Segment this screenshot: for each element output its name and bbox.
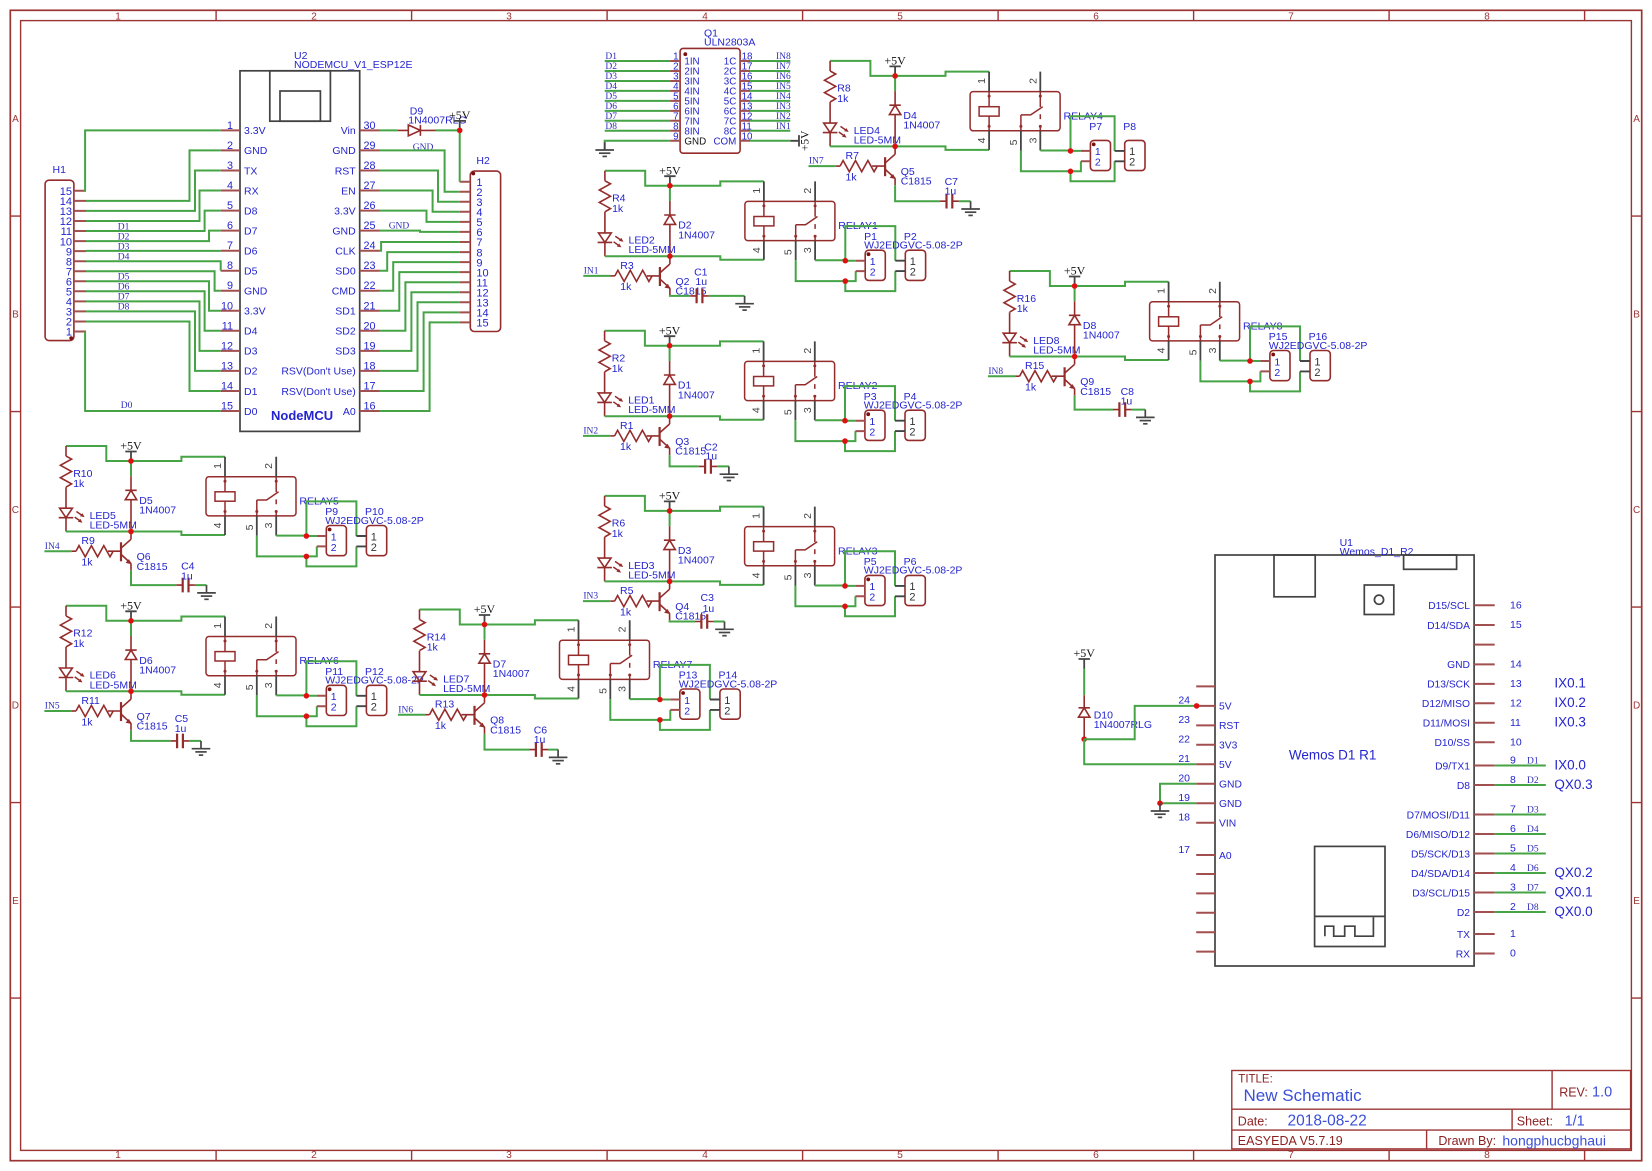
svg-text:10: 10 [1510, 737, 1522, 749]
svg-text:SD0: SD0 [335, 266, 356, 278]
wire U2.25 to H2.6 [380, 231, 460, 232]
svg-text:5: 5 [1008, 139, 1020, 145]
svg-text:2: 2 [263, 623, 275, 629]
junction node at +5V of RELAY7 [482, 622, 488, 628]
svg-text:13: 13 [221, 360, 233, 372]
wire U2.26 to H2.5 [380, 211, 460, 222]
wire loop P15-P16 [1250, 326, 1300, 391]
connector P10 [356, 506, 386, 556]
svg-text:D6: D6 [244, 246, 258, 258]
wire +5V to diode D2 [669, 186, 671, 201]
svg-text:P12: P12 [365, 666, 384, 678]
svg-text:1/1: 1/1 [1565, 1114, 1585, 1130]
svg-text:1k: 1k [846, 171, 858, 183]
junction node P13 pin2 [657, 717, 663, 723]
svg-text:29: 29 [364, 140, 376, 152]
svg-text:1: 1 [212, 463, 224, 469]
svg-text:18: 18 [1178, 812, 1190, 824]
resistor R16 1k [1004, 271, 1036, 333]
wire loop P9-P10 [306, 501, 356, 566]
svg-text:1k: 1k [620, 281, 632, 293]
svg-text:1u: 1u [705, 451, 717, 463]
svg-text:6: 6 [1093, 1150, 1099, 1161]
wire +5V rail to R14 and relay pin 1 [420, 610, 579, 625]
svg-text:9: 9 [227, 280, 233, 292]
svg-text:GND: GND [684, 136, 706, 147]
svg-text:IN3: IN3 [776, 102, 791, 112]
svg-text:IN8: IN8 [776, 52, 791, 62]
wire U2.22 to H2.9 [380, 262, 460, 291]
svg-text:3.3V: 3.3V [334, 205, 356, 217]
svg-text:GND: GND [332, 225, 356, 237]
LED LED1 LED-5MM [597, 393, 675, 416]
svg-text:5: 5 [244, 524, 256, 530]
svg-text:D6: D6 [1527, 864, 1539, 874]
svg-text:D5: D5 [1527, 844, 1539, 854]
svg-text:R5: R5 [620, 585, 634, 597]
junction node P1 pin1 [843, 258, 849, 264]
wire IN7 input [809, 165, 836, 167]
diode D10 1N4007RLG [1079, 695, 1153, 739]
resistor R15 1k (base) [1015, 360, 1057, 393]
svg-text:3: 3 [263, 522, 275, 528]
svg-text:RX: RX [244, 185, 259, 197]
resistor R8 1k [824, 61, 850, 123]
wire +5V rail to R4 and relay pin 1 [605, 171, 764, 186]
svg-text:CLK: CLK [335, 246, 355, 258]
svg-text:A0: A0 [343, 406, 356, 418]
svg-text:4: 4 [566, 686, 578, 692]
svg-text:RST: RST [1219, 721, 1240, 732]
wire relay contacts to P13 [610, 699, 670, 720]
svg-text:NodeMCU: NodeMCU [271, 408, 333, 423]
relay RELAY2 [745, 341, 878, 420]
svg-text:D5: D5 [605, 92, 617, 102]
svg-text:1k: 1k [612, 363, 624, 375]
relay RELAY8 [1150, 282, 1283, 361]
wire U1 D2 pad net D8 [1495, 911, 1546, 913]
svg-text:P14: P14 [719, 670, 738, 682]
wire U1 D5 pad net D5 [1495, 853, 1546, 855]
junction node P11 pin1 [304, 693, 310, 699]
wire IN5 input [44, 710, 71, 712]
connector P14 [710, 670, 740, 720]
wire U1 D7 pad net D3 [1495, 814, 1546, 816]
capacitor C2 1u [699, 442, 718, 474]
ground (U1 GND) [1151, 803, 1170, 817]
svg-text:Drawn By:: Drawn By: [1438, 1134, 1496, 1148]
junction node below diode D1 [667, 413, 673, 419]
svg-text:5: 5 [227, 200, 233, 212]
svg-text:P16: P16 [1309, 331, 1328, 343]
wire LED to emitter rail [830, 146, 989, 150]
svg-text:2: 2 [869, 592, 875, 604]
wire U2.19 to H2.12 [380, 292, 460, 351]
junction node at +5V of RELAY5 [128, 458, 134, 464]
svg-text:D2: D2 [244, 366, 258, 378]
svg-text:1N4007: 1N4007 [139, 665, 176, 677]
ground (emitter of Q4) [715, 622, 734, 636]
svg-text:4: 4 [227, 180, 233, 192]
svg-text:D7: D7 [244, 225, 258, 237]
svg-text:R11: R11 [81, 695, 100, 707]
junction node U1 pin 24 [1194, 703, 1200, 709]
transistor Q9 C1815 [1052, 357, 1112, 398]
diode D1 1N4007 [664, 361, 715, 416]
svg-text:H1: H1 [53, 164, 67, 176]
svg-text:7: 7 [1288, 1150, 1294, 1161]
svg-text:1u: 1u [534, 734, 546, 746]
svg-text:D10/SS: D10/SS [1435, 738, 1471, 749]
svg-text:+5V: +5V [120, 599, 142, 613]
relay RELAY1 [745, 181, 878, 260]
svg-text:D13/SCK: D13/SCK [1427, 680, 1470, 691]
svg-text:3.3V: 3.3V [244, 306, 266, 318]
svg-text:GND: GND [332, 145, 356, 157]
svg-text:5V: 5V [1219, 760, 1232, 771]
svg-text:5: 5 [897, 1150, 903, 1161]
svg-text:4: 4 [976, 137, 988, 143]
svg-text:COM: COM [713, 136, 736, 147]
wire LED to emitter rail [66, 691, 225, 695]
svg-text:REV:: REV: [1559, 1085, 1588, 1099]
svg-text:1u: 1u [703, 603, 715, 615]
svg-text:4: 4 [751, 572, 763, 578]
resistor R9 1k (base) [72, 535, 114, 568]
junction node below diode D5 [128, 529, 134, 535]
svg-text:GND: GND [1219, 799, 1242, 810]
wire loop P3-P4 [845, 386, 895, 451]
wire LED to emitter rail [1010, 357, 1169, 361]
svg-text:C1815: C1815 [1080, 386, 1111, 398]
ground (emitter of Q9) [1136, 410, 1155, 424]
svg-text:2: 2 [802, 513, 814, 519]
svg-text:17: 17 [1178, 844, 1190, 856]
svg-text:2: 2 [910, 267, 916, 279]
svg-text:D1: D1 [1527, 756, 1539, 766]
wire emitter to capacitor C8 [1075, 395, 1146, 409]
svg-text:1u: 1u [945, 186, 957, 198]
U1 left pin stubs [1196, 686, 1215, 951]
wire D7 to Q1.7 [605, 120, 670, 122]
svg-text:12: 12 [221, 340, 233, 352]
svg-text:GND: GND [413, 143, 434, 153]
svg-text:R9: R9 [81, 535, 95, 547]
svg-text:1: 1 [115, 11, 121, 22]
svg-text:GND: GND [1219, 780, 1242, 791]
svg-text:2: 2 [802, 348, 814, 354]
ground (emitter of Q6) [197, 585, 216, 599]
svg-text:C1815: C1815 [137, 561, 168, 573]
svg-text:21: 21 [364, 300, 376, 312]
ic Q1 ULN2803A [670, 27, 755, 153]
svg-text:2: 2 [1129, 157, 1135, 169]
svg-text:C1815: C1815 [490, 724, 521, 736]
svg-text:2: 2 [311, 1150, 317, 1161]
connector P7 WJ2EDGVC-5.08-2P [1081, 121, 1111, 171]
svg-text:16: 16 [1510, 599, 1522, 611]
svg-text:1k: 1k [1017, 303, 1029, 315]
svg-text:5: 5 [244, 684, 256, 690]
wire emitter to capacitor C3 [670, 620, 725, 621]
svg-text:2: 2 [870, 267, 876, 279]
wire loop P5-P6 [845, 551, 895, 616]
svg-text:TX: TX [1457, 930, 1470, 941]
LED LED5 LED-5MM [59, 508, 137, 531]
svg-text:1: 1 [1156, 288, 1168, 294]
wire Q1.11 to IN1 [750, 130, 790, 132]
svg-text:+5V: +5V [449, 108, 471, 122]
ic U1 Wemos_D1_R2 [1215, 537, 1474, 966]
svg-text:C1815: C1815 [675, 446, 706, 458]
diode D7 1N4007 [479, 640, 530, 695]
wire +5V to diode D8 [1074, 286, 1076, 301]
junction node below diode D7 [482, 692, 488, 698]
svg-text:2: 2 [802, 188, 814, 194]
svg-text:17: 17 [364, 381, 376, 393]
svg-text:2: 2 [1274, 367, 1280, 379]
svg-text:1N4007: 1N4007 [678, 229, 715, 241]
svg-text:+5V: +5V [474, 602, 496, 616]
wire U2.29 to H2.2 [380, 150, 460, 191]
svg-text:+5V: +5V [120, 439, 142, 453]
connector P15 WJ2EDGVC-5.08-2P [1260, 331, 1367, 381]
svg-text:8: 8 [1484, 11, 1490, 22]
svg-text:D6/MISO/D12: D6/MISO/D12 [1406, 830, 1470, 841]
svg-text:2: 2 [869, 427, 875, 439]
svg-text:1N4007: 1N4007 [139, 505, 176, 517]
svg-text:2018-08-22: 2018-08-22 [1288, 1113, 1367, 1130]
svg-text:D0: D0 [121, 401, 133, 411]
+5V power flag (RELAY1 block) [659, 163, 681, 185]
svg-text:14: 14 [221, 381, 233, 393]
wire relay contacts to P11 [257, 695, 317, 716]
svg-text:1: 1 [751, 513, 763, 519]
svg-text:1: 1 [1510, 928, 1516, 940]
svg-text:2: 2 [1207, 288, 1219, 294]
junction node below diode D8 [1072, 354, 1078, 360]
wire U2.27 to H2.4 [380, 191, 460, 212]
junction node P15 pin1 [1247, 358, 1253, 364]
svg-text:A: A [12, 114, 19, 125]
resistor R5 1k (base) [610, 585, 652, 618]
wire +5V to diode D4 [894, 76, 896, 91]
LED LED3 LED-5MM [597, 558, 675, 581]
svg-text:3: 3 [802, 407, 814, 413]
wire U2.28 to H2.3 [380, 171, 460, 202]
svg-text:D15/SCL: D15/SCL [1428, 601, 1470, 612]
junction node P11 pin2 [304, 713, 310, 719]
wire Q1.17 to IN7 [750, 70, 790, 72]
svg-text:D8: D8 [118, 303, 130, 313]
svg-text:2: 2 [331, 542, 337, 554]
wire U2.30 Vin to D9 [380, 129, 398, 131]
svg-text:4: 4 [212, 522, 224, 528]
svg-text:2: 2 [617, 626, 629, 632]
resistor R10 1k [60, 446, 92, 508]
svg-text:D1: D1 [605, 52, 617, 62]
svg-text:2: 2 [227, 140, 233, 152]
wire +5V to diode D5 [130, 461, 132, 476]
resistor R6 1k [599, 496, 625, 558]
wire U2.8 to H1.8 [86, 261, 221, 271]
svg-text:QX0.1: QX0.1 [1554, 884, 1592, 899]
svg-text:+5V: +5V [659, 323, 681, 337]
connector P8 [1115, 121, 1145, 171]
wire U2.4 to H1.4 [86, 191, 221, 222]
svg-text:CMD: CMD [332, 286, 356, 298]
svg-text:1k: 1k [612, 528, 624, 540]
ground (emitter of Q7) [192, 741, 211, 755]
LED LED6 LED-5MM [59, 668, 137, 691]
LED LED8 LED-5MM [1002, 333, 1080, 356]
svg-text:1N4007: 1N4007 [493, 668, 530, 680]
svg-text:EN: EN [341, 185, 356, 197]
svg-text:EASYEDA V5.7.19: EASYEDA V5.7.19 [1238, 1134, 1343, 1148]
wire U2.6 to H1.6 [86, 231, 221, 242]
svg-text:1N4007: 1N4007 [678, 555, 715, 567]
svg-text:IN2: IN2 [776, 112, 791, 122]
wire relay contacts to P1 [796, 260, 856, 281]
svg-text:P10: P10 [365, 506, 384, 518]
connector P13 WJ2EDGVC-5.08-2P [670, 670, 777, 720]
wire Q1.15 to IN5 [750, 90, 790, 92]
connector P16 [1300, 331, 1330, 381]
junction node P9 pin1 [304, 533, 310, 539]
svg-text:R3: R3 [620, 260, 634, 272]
svg-text:D11/MOSI: D11/MOSI [1423, 719, 1470, 730]
wire +5V rail to R2 and relay pin 1 [605, 331, 764, 346]
wire D4 to Q1.4 [605, 90, 670, 92]
wire IN8 input [988, 375, 1015, 377]
svg-text:4: 4 [751, 407, 763, 413]
svg-text:1k: 1k [435, 720, 447, 732]
wire IN1 input [583, 275, 610, 277]
junction node P5 pin2 [842, 604, 848, 610]
svg-text:H2: H2 [476, 155, 490, 167]
svg-text:5: 5 [782, 574, 794, 580]
svg-text:D4: D4 [118, 253, 130, 263]
svg-text:GND: GND [1447, 660, 1470, 671]
junction node below diode D3 [667, 579, 673, 585]
wire LED to emitter rail [605, 416, 764, 420]
svg-text:7: 7 [227, 240, 233, 252]
junction node at +5V of RELAY8 [1072, 283, 1078, 289]
svg-text:6: 6 [1093, 11, 1099, 22]
svg-text:2: 2 [371, 542, 377, 554]
wire D2 to Q1.2 [605, 70, 670, 72]
svg-text:D2: D2 [1457, 908, 1470, 919]
wire U2.12 to H1.12 [86, 301, 221, 351]
wire relay contacts to P15 [1200, 361, 1260, 382]
svg-text:1: 1 [976, 78, 988, 84]
+5V power flag (RELAY6 block) [120, 599, 142, 621]
svg-text:27: 27 [364, 180, 376, 192]
transistor Q7 C1815 [108, 691, 168, 732]
svg-text:4: 4 [702, 1150, 708, 1161]
svg-text:D4: D4 [244, 326, 258, 338]
svg-text:D3: D3 [605, 72, 617, 82]
svg-text:P4: P4 [904, 391, 917, 403]
svg-text:1u: 1u [1121, 396, 1133, 408]
diode D3 1N4007 [664, 526, 715, 581]
svg-text:3.3V: 3.3V [244, 125, 266, 137]
svg-text:1: 1 [115, 1150, 121, 1161]
diode D5 1N4007 [125, 476, 176, 531]
ic U2 NODEMCU_V1_ESP12E [221, 50, 413, 431]
svg-text:1k: 1k [73, 478, 85, 490]
transistor Q4 C1815 [647, 581, 707, 622]
svg-text:Wemos D1 R1: Wemos D1 R1 [1289, 748, 1377, 763]
svg-text:1.0: 1.0 [1592, 1085, 1612, 1101]
junction node P15 pin2 [1247, 379, 1253, 385]
svg-text:SD2: SD2 [335, 326, 356, 338]
svg-text:RSV(Don't Use): RSV(Don't Use) [281, 386, 355, 398]
+5V power flag (D10) [1073, 646, 1095, 668]
wire U1 D8 pad net D2 [1495, 784, 1546, 786]
connector P1 WJ2EDGVC-5.08-2P [856, 231, 963, 281]
svg-text:7: 7 [1288, 11, 1294, 22]
svg-text:19: 19 [364, 340, 376, 352]
diode D8 1N4007 [1069, 301, 1120, 356]
svg-text:1: 1 [751, 348, 763, 354]
junction node D10 anode [1081, 736, 1087, 742]
wire +5V rail to R12 and relay pin 1 [66, 606, 225, 621]
svg-text:1u: 1u [175, 723, 187, 735]
svg-text:C1815: C1815 [137, 721, 168, 733]
junction node at +5V of RELAY4 [892, 73, 898, 79]
wire D3 to Q1.3 [605, 80, 670, 82]
wire U2.17 to H2.14 [380, 312, 460, 391]
wire +5V to D10 [1083, 669, 1085, 696]
svg-text:2: 2 [1314, 367, 1320, 379]
svg-text:2: 2 [311, 11, 317, 22]
resistor R4 1k [599, 171, 625, 233]
diode D6 1N4007 [125, 636, 176, 691]
svg-text:3V3: 3V3 [1219, 741, 1238, 752]
svg-text:1k: 1k [620, 606, 632, 618]
wire relay contacts to P3 [795, 420, 855, 441]
svg-text:IX0.1: IX0.1 [1554, 676, 1586, 691]
wire Q1.9 GND to ground [605, 141, 670, 150]
svg-text:RX: RX [1456, 949, 1470, 960]
svg-text:D5: D5 [118, 273, 130, 283]
resistor R13 1k (base) [425, 699, 467, 732]
LED LED7 LED-5MM [412, 672, 490, 695]
svg-text:5: 5 [597, 688, 609, 694]
wire emitter to capacitor C4 [131, 570, 207, 585]
svg-text:D7: D7 [1527, 883, 1539, 893]
svg-text:D8: D8 [1457, 781, 1470, 792]
svg-text:3: 3 [617, 686, 629, 692]
svg-text:D3: D3 [244, 346, 258, 358]
diode D2 1N4007 [664, 201, 715, 256]
wire +5V to diode D3 [669, 511, 671, 526]
svg-text:Date:: Date: [1238, 1114, 1268, 1128]
svg-text:B: B [1633, 310, 1640, 321]
transistor Q8 C1815 [462, 695, 522, 736]
wire U2.24 to H2.7 [380, 242, 460, 251]
svg-text:20: 20 [364, 320, 376, 332]
svg-text:+5V: +5V [800, 130, 812, 151]
wire loop P7-P8 [1071, 116, 1115, 181]
svg-text:1: 1 [227, 120, 233, 132]
svg-text:8: 8 [1484, 1150, 1490, 1161]
svg-text:New Schematic: New Schematic [1244, 1086, 1363, 1105]
svg-text:+5V: +5V [1073, 646, 1095, 660]
svg-text:2: 2 [263, 463, 275, 469]
wire loop P11-P12 [306, 661, 356, 726]
